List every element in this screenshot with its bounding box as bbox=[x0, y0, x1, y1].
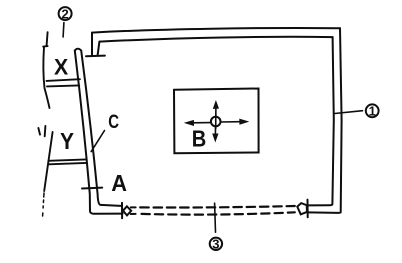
svg-text:A: A bbox=[111, 170, 127, 196]
boundary line upper dash bbox=[47, 32, 48, 45]
boundary line upper segment bbox=[43, 47, 49, 108]
arrow right head bbox=[240, 119, 248, 124]
arrow down line bbox=[214, 127, 216, 135]
svg-text:1: 1 bbox=[369, 104, 376, 119]
boundary line hook bbox=[43, 45, 47, 48]
hidden pipe dashed lower bbox=[142, 212, 295, 214]
svg-text:X: X bbox=[54, 55, 68, 80]
arrow right line bbox=[221, 121, 241, 123]
arrow up head bbox=[214, 102, 219, 109]
top pipe inner line bbox=[100, 37, 333, 42]
svg-text:3: 3 bbox=[212, 236, 219, 251]
top pipe outer left drop bbox=[91, 33, 93, 56]
svg-text:Y: Y bbox=[60, 128, 74, 154]
top pipe outer line bbox=[92, 28, 340, 33]
boundary line small dash bbox=[38, 126, 45, 136]
top pipe inner left drop bbox=[98, 42, 100, 56]
right pipe inner line with bottom corner bbox=[308, 37, 334, 205]
radiator X connection pipe upper bbox=[47, 79, 80, 81]
right pipe outer line with bottom corner bbox=[308, 28, 342, 213]
leader line for label C bbox=[91, 131, 104, 152]
boundary line fading dashes bbox=[43, 193, 44, 216]
circled label 3 bbox=[210, 236, 222, 251]
arrow left head bbox=[186, 121, 194, 126]
boundary line lower segment bbox=[44, 132, 52, 191]
control box B rectangle bbox=[174, 89, 259, 154]
radiator X connection pipe lower bbox=[47, 85, 79, 86]
valve left tick bbox=[121, 203, 123, 218]
pipe C top cap bbox=[75, 49, 81, 51]
leader line for label 1 bbox=[335, 111, 363, 114]
crosshair vertical line through circle bbox=[215, 115, 217, 129]
svg-text:2: 2 bbox=[61, 6, 68, 21]
radiator Y connection pipe lower bbox=[49, 163, 87, 164]
svg-text:C: C bbox=[108, 111, 119, 133]
valve right pentagon bbox=[297, 203, 307, 214]
svg-text:B: B bbox=[192, 125, 207, 151]
leader line for label 2 bbox=[62, 23, 65, 37]
valve right tick bbox=[307, 200, 309, 218]
pipe C right line with elbow to bottom inner pipe bbox=[81, 51, 121, 206]
pipe C left line with elbow to bottom outer pipe bbox=[75, 51, 123, 214]
valve left outlet stubs bbox=[131, 207, 136, 214]
crosshair circle bbox=[211, 117, 221, 127]
arrow up line bbox=[215, 108, 217, 117]
radiator Y connection pipe upper bbox=[48, 159, 86, 160]
hidden pipe dashed upper bbox=[140, 206, 295, 208]
leader line for label 3 bbox=[214, 203, 217, 232]
circled label 1 bbox=[366, 104, 379, 119]
arrow down head bbox=[213, 134, 218, 141]
circled label 2 bbox=[59, 6, 72, 21]
top pipe end flange bar bbox=[86, 55, 105, 58]
point A tick mark bbox=[82, 187, 102, 190]
arrow left line bbox=[193, 122, 211, 124]
valve left diamond bbox=[123, 206, 131, 215]
